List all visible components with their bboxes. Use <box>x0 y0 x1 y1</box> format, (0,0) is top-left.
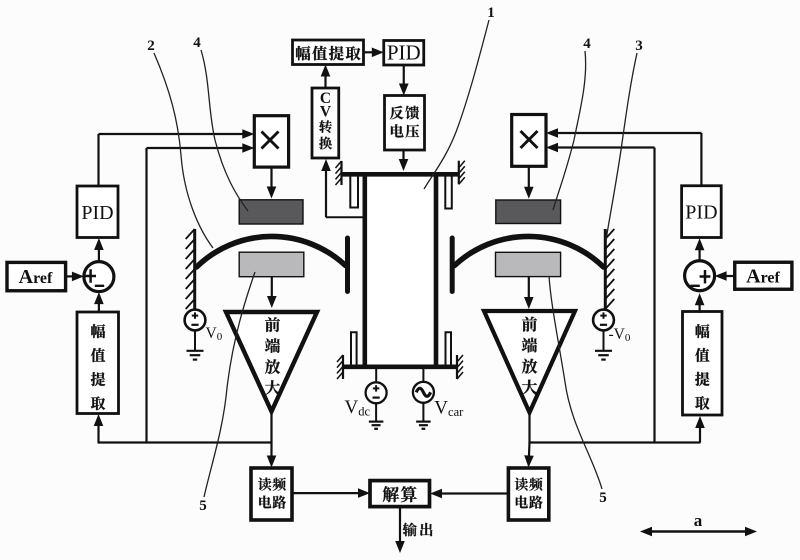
svg-text:Aref: Aref <box>19 266 53 288</box>
svg-text:V: V <box>320 104 332 121</box>
svg-text:PID: PID <box>81 202 113 224</box>
svg-text:4: 4 <box>193 35 201 51</box>
svg-text:3: 3 <box>635 38 643 54</box>
svg-text:5: 5 <box>199 498 207 514</box>
svg-text:2: 2 <box>147 38 155 54</box>
svg-text:PID: PID <box>685 202 717 224</box>
svg-text:1: 1 <box>487 5 495 21</box>
svg-text:a: a <box>694 511 703 530</box>
svg-text:4: 4 <box>583 36 591 52</box>
svg-text:5: 5 <box>599 490 607 506</box>
svg-text:Aref: Aref <box>746 266 780 288</box>
svg-text:PID: PID <box>387 41 421 65</box>
